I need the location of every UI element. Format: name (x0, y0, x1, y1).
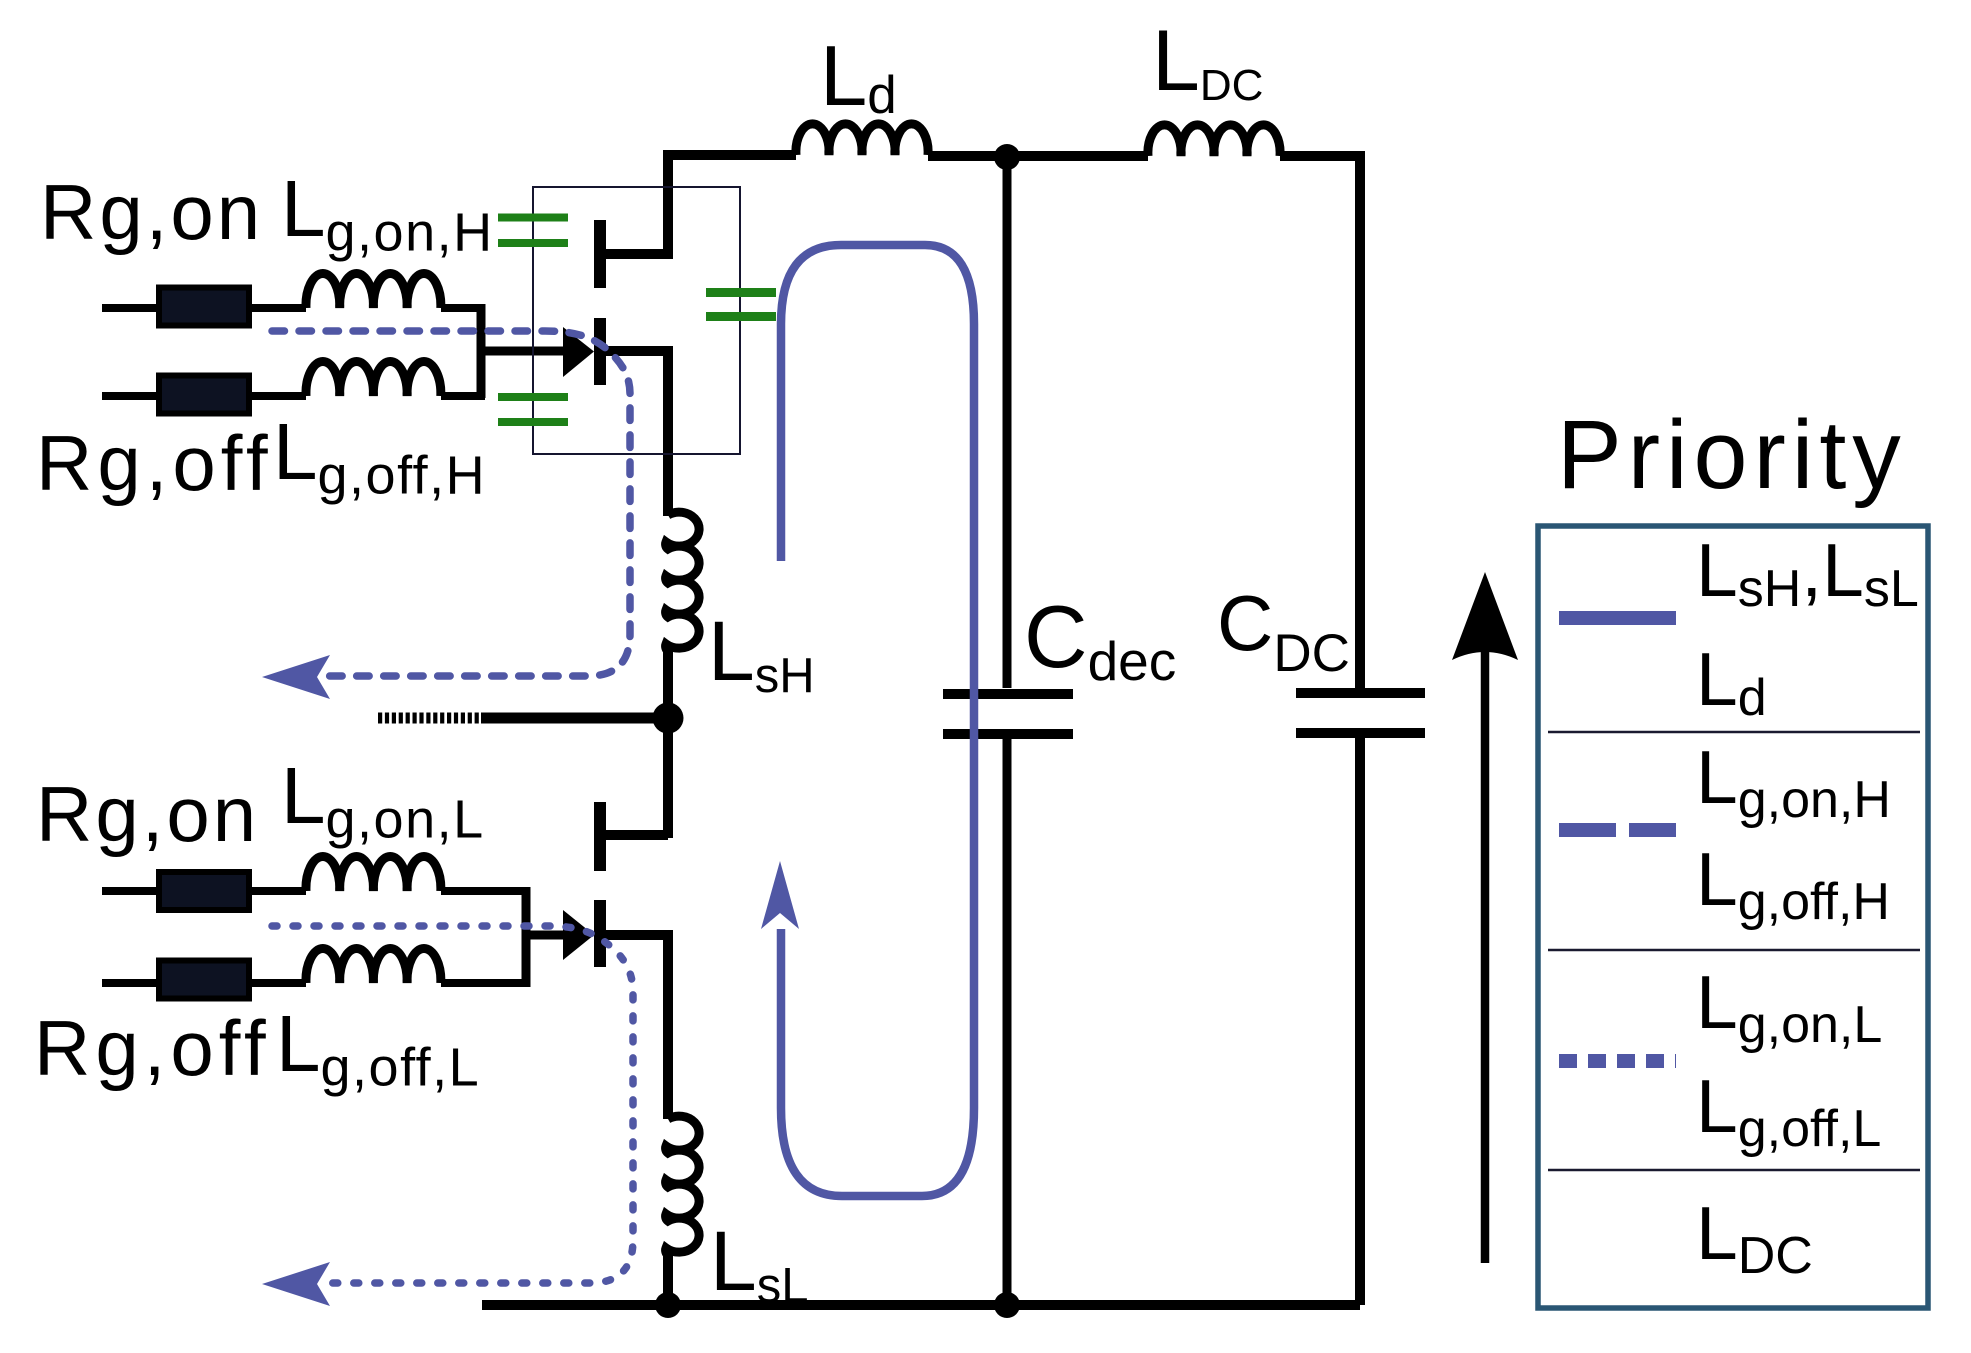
inductor LsH (666, 512, 700, 651)
resistor Rg,on (high side) (102, 304, 160, 312)
legend solid sample (1559, 611, 1676, 625)
arrowhead gate low loop (262, 1262, 330, 1306)
wire LsL to rail (663, 1254, 673, 1305)
svg-text:Rg,on: Rg,on (36, 770, 259, 858)
wire rail right + CDC top lead (1280, 156, 1360, 688)
svg-text:Rg,off: Rg,off (34, 1004, 271, 1092)
legend divider 2 (1548, 949, 1920, 952)
arrowhead main loop (761, 861, 799, 929)
wire Q_L drain stub (604, 830, 668, 840)
inductor Lg,off,L (250, 979, 306, 987)
resistor Rg,on (low side) (102, 887, 160, 895)
svg-text:Rg,off: Rg,off (36, 419, 273, 507)
arrowhead gate high loop (262, 655, 330, 699)
wire phase out dotted (378, 713, 481, 724)
legend dashed sample (1559, 823, 1616, 837)
node junction top (Cdec tap) (994, 144, 1020, 170)
wire top rail left stub (668, 155, 796, 259)
inductor Lg,off,H (250, 392, 306, 400)
legend divider 3 (1548, 1169, 1920, 1172)
inductor Lg,on,H (250, 304, 306, 312)
priority arrow (black up) (1481, 650, 1490, 1263)
capacitor Cgd,H (green) (498, 214, 568, 222)
capacitor Cds,H (green) (706, 288, 776, 297)
current loop main (solid blue) (781, 245, 974, 1196)
transistor Q_H upper bar (drain plate) (594, 220, 606, 288)
resistor Rg,off (high side) (102, 392, 160, 400)
wire Q_L source stub (604, 935, 668, 1119)
wire gate stub Q_L (526, 931, 568, 940)
inductor LDC (1148, 125, 1280, 156)
node bottom Cdec junction (994, 1292, 1020, 1318)
wire Q_L drain (663, 718, 673, 838)
wire Q_H source stub (604, 351, 668, 516)
wire gate stub Q_H (479, 347, 568, 356)
wire gate bracket (high side) (477, 304, 486, 398)
package box Q_H (533, 187, 740, 454)
svg-text:Rg,on: Rg,on (40, 168, 263, 256)
node bottom left junction (655, 1292, 681, 1318)
wire LsH to node (663, 650, 673, 718)
transistor Q_L upper bar (594, 802, 606, 871)
inductor Ld (796, 124, 928, 155)
capacitor Cgs,H (green) (498, 393, 568, 401)
legend dotted sample (1559, 1054, 1676, 1068)
inductor LsL (666, 1116, 700, 1255)
transistor Q_L lower bar (594, 900, 606, 967)
inductor Lg,on,L (250, 887, 306, 895)
capacitor Cdec (1003, 157, 1012, 688)
diode gate arrow Q_H (563, 327, 594, 377)
diode gate arrow Q_L (563, 910, 594, 960)
current loop gate high (dashed blue) (272, 331, 630, 676)
wire phase out solid (481, 713, 668, 724)
legend divider 1 (1548, 731, 1920, 734)
legend box (1538, 526, 1928, 1308)
node phase junction (653, 703, 684, 734)
wire Q_H drain stub (604, 249, 668, 259)
wire bottom rail (482, 1300, 1360, 1310)
capacitor CDC (1296, 688, 1425, 698)
transistor Q_H lower bar (source plate) (594, 318, 606, 385)
wire rail mid (928, 151, 1148, 161)
current loop gate low (dotted blue) (272, 926, 633, 1283)
svg-text:Priority: Priority (1557, 400, 1907, 509)
wire gate bracket (low side) (522, 887, 531, 987)
resistor Rg,off (low side) (102, 979, 160, 987)
